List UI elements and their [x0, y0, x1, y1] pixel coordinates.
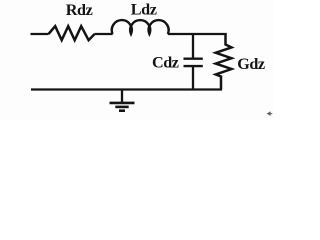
- svg-text:Cdz: Cdz: [152, 54, 179, 72]
- svg-text:Gdz: Gdz: [237, 55, 265, 73]
- wire Cdz bottom to bottom rail: [192, 66, 194, 89]
- ground: [110, 90, 135, 111]
- wire from Ldz to node A: [168, 33, 193, 35]
- node A (top junction of Cdz branch): [192, 34, 194, 58]
- wire between Rdz and Ldz: [95, 33, 113, 35]
- wire node A to Gdz branch: [193, 33, 227, 35]
- decorative grey arrow artifact: [267, 111, 273, 116]
- wire top-left input: [31, 33, 49, 35]
- inductor Ldz: [112, 20, 169, 34]
- svg-text:Ldz: Ldz: [131, 1, 157, 19]
- svg-text:Rdz: Rdz: [66, 1, 93, 19]
- capacitor Cdz: [184, 59, 203, 66]
- wire bottom rail: [31, 88, 222, 90]
- resistor Gdz: [216, 33, 232, 90]
- resistor Rdz: [49, 26, 95, 40]
